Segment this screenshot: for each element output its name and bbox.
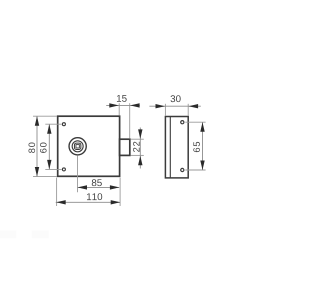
arrow 60 down	[47, 160, 51, 170]
cylinder inner circle	[72, 141, 83, 152]
dim line 85	[78, 186, 120, 188]
extension line side hole top	[185, 121, 205, 123]
arrow 65 down	[200, 161, 204, 171]
extension line 30 right	[187, 104, 189, 116]
lock body (front view)	[58, 116, 120, 176]
arrow 80 up	[35, 116, 39, 126]
arrow 22 bottom outside	[138, 156, 142, 166]
extension line body left down	[56, 178, 58, 206]
label 22	[133, 142, 140, 152]
arrow 30 left outside	[156, 104, 166, 108]
extension line bolt top	[131, 138, 144, 140]
arrow 30 right outside	[189, 104, 199, 108]
dim line 60	[48, 124, 50, 169]
dim line 30	[149, 105, 200, 107]
label 60	[40, 143, 47, 153]
extension line side hole bottom	[185, 169, 205, 171]
dim line 65	[202, 122, 204, 169]
dim line 22	[139, 128, 141, 169]
extension line cylinder center down	[77, 156, 79, 193]
arrow 65 up	[200, 122, 204, 132]
label 30	[171, 95, 181, 102]
bolt (front view)	[120, 139, 130, 155]
label 80	[29, 143, 36, 153]
cylinder outer circle	[69, 138, 86, 155]
cylinder inner square	[76, 145, 79, 148]
label 65	[193, 142, 200, 152]
arrow 60 up	[47, 124, 51, 134]
label 85	[92, 179, 102, 186]
arrow 85 right	[110, 185, 120, 189]
dim line 80	[36, 117, 38, 177]
arrow 110 left	[56, 200, 65, 204]
label 15	[117, 95, 127, 102]
extension line 15 left	[118, 103, 120, 115]
extension line hole bottom	[45, 168, 61, 170]
extension line 30 left	[164, 104, 166, 116]
faceplate (side view)	[165, 117, 188, 178]
arrow 15 left outside	[109, 103, 119, 107]
extension line 15 right	[129, 103, 131, 138]
arrow 85 left	[78, 185, 88, 189]
screw hole side top	[181, 121, 184, 124]
faint watermark rect 2	[32, 231, 49, 239]
extension line hole top	[45, 123, 61, 125]
arrow 15 right outside	[130, 103, 140, 107]
screw hole front top	[62, 123, 65, 126]
extension line body bottom-left	[33, 176, 57, 178]
dim line 110	[56, 201, 120, 203]
arrow 110 right	[111, 200, 121, 204]
extension line bolt bottom	[131, 154, 144, 156]
screw hole side bottom	[181, 168, 184, 171]
extension line body right down	[119, 178, 121, 206]
screw hole front bottom	[62, 168, 65, 171]
faint watermark rect 1	[0, 231, 16, 239]
extension line body top-left	[33, 115, 57, 117]
arrow 80 down	[35, 167, 39, 177]
faceplate inner edge line	[169, 117, 171, 178]
cylinder rounded square	[74, 143, 80, 149]
label 110	[87, 193, 102, 200]
arrow 22 top outside	[138, 129, 142, 139]
dim line 15	[106, 104, 140, 106]
